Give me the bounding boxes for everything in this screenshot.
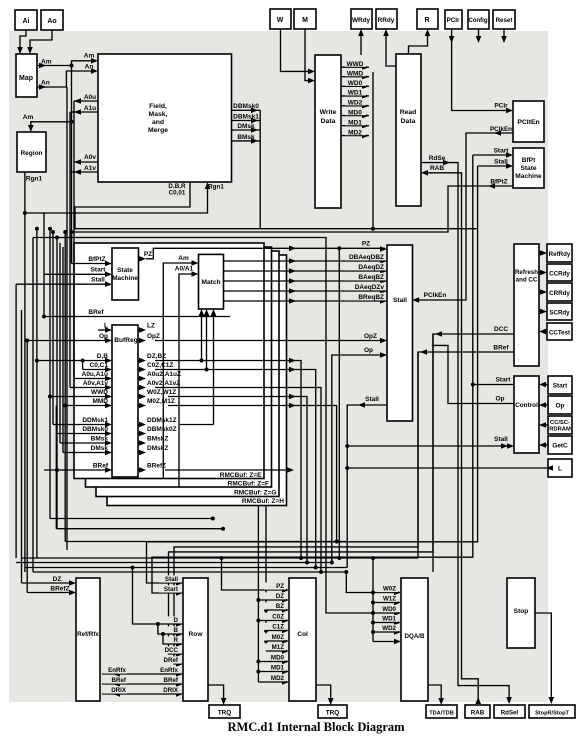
svg-text:RMCBuf: Z=G: RMCBuf: Z=G (234, 490, 276, 497)
bus A1u down (69, 112, 71, 388)
block Write-Data (315, 55, 341, 208)
wire md cross (371, 227, 478, 231)
bus left 12 (71, 66, 73, 264)
wires EnRfx BRef DRIX (102, 666, 181, 696)
caption (227, 720, 405, 734)
svg-text:M0Z,M1Z: M0Z,M1Z (147, 398, 175, 405)
svg-text:DBMsk0: DBMsk0 (233, 103, 259, 110)
svg-text:WD2: WD2 (382, 625, 396, 632)
svg-text:W1Z: W1Z (383, 596, 396, 603)
wire BfPt Start (473, 148, 513, 158)
wire Row to TRQ (208, 685, 226, 705)
wire BRefZ right (165, 467, 294, 473)
block PCItEn (513, 101, 544, 142)
svg-text:DZ: DZ (276, 593, 284, 600)
bus left 2 (21, 310, 23, 583)
wire RefRdy (539, 250, 547, 256)
wire Ao to Map (27, 30, 52, 54)
wire CRRdy (539, 289, 547, 295)
wire FMM DBMsk0 out (232, 103, 261, 113)
bus left 10 (62, 247, 64, 453)
port SCRdy (547, 303, 572, 320)
svg-text:DAeqDZ: DAeqDZ (358, 264, 384, 271)
svg-text:W0Z,W1Z: W0Z,W1Z (147, 389, 176, 396)
svg-text:BRefZ: BRefZ (50, 586, 69, 593)
svg-text:A1v: A1v (84, 165, 96, 172)
port CCRdy (547, 264, 572, 281)
svg-text:PZ: PZ (276, 583, 284, 590)
wire W0Z right (168, 394, 309, 565)
wire Stall out (347, 396, 387, 568)
svg-text:MD2: MD2 (348, 129, 362, 136)
svg-text:OpZ: OpZ (364, 333, 377, 340)
wire Stop out (535, 613, 554, 704)
svg-text:MD0: MD0 (271, 655, 285, 662)
svg-text:Config: Config (469, 18, 488, 24)
wire M to WriteData (305, 29, 315, 83)
block State-Machine (112, 248, 139, 300)
svg-text:Stall: Stall (365, 396, 379, 403)
block BfPt-State-Machine (513, 148, 544, 188)
svg-text:SCRdy: SCRdy (549, 310, 570, 317)
svg-text:CRRdy: CRRdy (549, 290, 570, 297)
svg-text:C1Z: C1Z (272, 624, 284, 631)
svg-text:PCIkEn: PCIkEn (490, 126, 512, 133)
svg-text:Map: Map (19, 75, 33, 82)
svg-text:A0v,A1v: A0v,A1v (83, 380, 109, 387)
svg-text:BRef: BRef (88, 309, 104, 316)
svg-text:DZ,BZ: DZ,BZ (147, 353, 166, 360)
right bundle dcc (169, 334, 434, 654)
wire PCIr down (449, 29, 513, 113)
wire CCRdy (539, 270, 547, 276)
wire CCSC (539, 422, 548, 428)
wire M0Z right (168, 403, 339, 544)
wire BfPtZ (70, 179, 514, 264)
bus left 1 (15, 284, 17, 558)
svg-text:RMC.d1 Internal Block Diagram: RMC.d1 Internal Block Diagram (227, 720, 405, 734)
right bundle start (152, 155, 473, 593)
port R (417, 9, 438, 29)
wire Match bottom in1 (199, 309, 205, 363)
svg-text:MD2: MD2 (271, 675, 285, 682)
block Refresh-and-CC (514, 244, 539, 366)
bundle row 2 (16, 562, 332, 564)
port Config (468, 10, 489, 29)
wire FMM DMsk out (232, 123, 261, 133)
svg-text:D: D (174, 617, 179, 624)
wire col md2 (258, 681, 287, 683)
svg-text:Ref/Rfx: Ref/Rfx (77, 631, 99, 638)
svg-text:An: An (85, 64, 94, 71)
svg-text:Merge: Merge (148, 127, 168, 134)
wire Control Stall in (345, 436, 514, 449)
svg-text:DZ: DZ (53, 576, 62, 583)
bundle row 3 (25, 567, 347, 569)
svg-text:CCRdy: CCRdy (549, 271, 570, 278)
svg-text:M0Z: M0Z (272, 634, 285, 641)
svg-text:Stall: Stall (494, 159, 508, 166)
block Control (514, 376, 539, 453)
label An FMM (85, 64, 94, 71)
port Op2 (548, 396, 572, 414)
wire FMM A0u out (74, 94, 98, 104)
bundle row 1 (22, 556, 419, 560)
svg-text:MD1: MD1 (271, 665, 285, 672)
port RdSel (494, 705, 525, 718)
svg-text:BufReg: BufReg (114, 337, 137, 344)
svg-text:Op: Op (495, 396, 504, 403)
svg-text:DRIX: DRIX (163, 687, 179, 694)
wire BfPt Stall (478, 159, 513, 169)
wire BRef row (42, 309, 230, 319)
wire C0Z right (155, 367, 318, 570)
block BufReg (112, 325, 138, 477)
svg-text:Control: Control (515, 402, 538, 409)
port RAB2 (465, 705, 490, 718)
wire Rgn1 down (25, 172, 210, 213)
wire Match A0A1 in (175, 266, 199, 488)
bundle row 5 (56, 406, 225, 531)
wire Row B (158, 624, 181, 634)
wire ReadData to R (409, 29, 431, 54)
svg-text:BfPt: BfPt (522, 157, 536, 164)
wire col c1z (266, 630, 287, 632)
port StopR-StopT (529, 705, 575, 718)
svg-text:WD2: WD2 (348, 100, 363, 107)
svg-text:GetC: GetC (552, 443, 568, 450)
wire pz col (338, 248, 340, 558)
svg-text:EnRfx: EnRfx (160, 667, 178, 674)
block Stop (507, 578, 535, 648)
wire Match bottom in3 (211, 309, 217, 425)
svg-text:TDA/TDB: TDA/TDB (429, 711, 454, 717)
wire FMM A1v out (70, 165, 98, 175)
svg-text:Machine: Machine (515, 173, 542, 180)
wires Match outputs (224, 253, 388, 304)
wire CCTest (539, 329, 547, 335)
rmcbuf Z=E (74, 243, 264, 479)
svg-text:EnRfx: EnRfx (108, 667, 126, 674)
svg-text:Rgn1: Rgn1 (208, 184, 224, 191)
svg-text:An: An (41, 80, 50, 87)
bundle row 7 (65, 541, 346, 543)
svg-text:BRef: BRef (164, 677, 179, 684)
wire DZ in (22, 576, 77, 586)
svg-text:W: W (277, 17, 284, 24)
svg-text:BRef: BRef (112, 677, 127, 684)
svg-text:RMCBuf: Z=H: RMCBuf: Z=H (242, 498, 284, 505)
svg-text:Reset: Reset (496, 17, 513, 24)
wire ReadData to RRdy (383, 29, 396, 66)
wire col bz (266, 609, 287, 611)
svg-text:DMskZ: DMskZ (147, 445, 168, 452)
svg-text:BAeqBZ: BAeqBZ (358, 274, 384, 281)
svg-text:MD0: MD0 (348, 109, 362, 116)
svg-text:RdSel: RdSel (501, 710, 519, 717)
block DQAB (401, 578, 428, 701)
svg-text:W0Z: W0Z (383, 586, 396, 593)
svg-text:BRef: BRef (493, 345, 509, 352)
svg-text:Field,: Field, (149, 103, 167, 110)
wire DDMsk1Z vert (180, 424, 214, 426)
wire GetC (539, 442, 548, 448)
svg-text:RAB: RAB (471, 710, 485, 717)
wire Control Op out (432, 345, 514, 403)
svg-text:RRdy: RRdy (378, 17, 395, 24)
wire cross stack top (33, 238, 375, 616)
svg-text:R: R (424, 17, 429, 24)
wire dq wd1 (371, 621, 399, 625)
rmcbuf Z=F (86, 247, 272, 488)
wire col md1 (258, 671, 287, 673)
port TRQ (209, 705, 240, 718)
wire L net (345, 465, 553, 471)
svg-text:State: State (520, 165, 536, 172)
svg-text:Data: Data (321, 118, 336, 125)
svg-text:PZ: PZ (144, 251, 152, 258)
svg-text:PZ: PZ (362, 241, 370, 248)
svg-text:WD0: WD0 (382, 606, 396, 613)
svg-text:Refresh: Refresh (515, 269, 538, 276)
svg-text:DQA/B: DQA/B (405, 633, 425, 640)
wire PZ net (139, 241, 388, 262)
svg-text:PCIr: PCIr (494, 103, 508, 110)
wire col dz (258, 599, 287, 601)
port TRQ2 (318, 705, 347, 718)
wire Start2 (539, 382, 548, 388)
right bundle bref (174, 352, 418, 664)
svg-text:DAeqDZv: DAeqDZv (355, 284, 385, 291)
svg-text:OpZ: OpZ (147, 333, 160, 340)
labels BufReg outputs (138, 323, 181, 473)
block Region (17, 132, 46, 172)
block Row (183, 578, 208, 701)
svg-text:A0v: A0v (84, 154, 96, 161)
svg-text:C0,01: C0,01 (169, 190, 186, 197)
labels Col inputs (264, 582, 289, 684)
bundle row 4 (33, 570, 348, 574)
svg-text:Stall: Stall (165, 576, 178, 583)
wire DZBZ right (155, 358, 303, 560)
block Map (16, 54, 37, 97)
wire FMM BMsk out (232, 134, 261, 144)
svg-text:R: R (174, 637, 179, 644)
svg-text:Start: Start (91, 267, 107, 274)
wire Op to Stall (330, 347, 387, 565)
port RRdy (376, 9, 397, 29)
svg-text:StopR/StopT: StopR/StopT (535, 711, 569, 717)
wire BRef refresh (418, 345, 514, 559)
svg-text:DBMsk0: DBMsk0 (82, 426, 108, 433)
port CCTest (547, 323, 572, 340)
port Ao (41, 10, 63, 30)
wire FMM A0v out (74, 154, 98, 165)
svg-text:MD1: MD1 (348, 120, 362, 127)
port L2 (548, 459, 572, 477)
svg-text:Op: Op (364, 347, 373, 354)
svg-text:PCIkEn: PCIkEn (424, 292, 447, 299)
wire RAB (421, 165, 481, 704)
wire BRefZ in (27, 586, 76, 596)
bus msk down (259, 110, 261, 228)
svg-text:L: L (558, 466, 562, 473)
wire SM BfPtZ in (72, 256, 113, 266)
block Field-Mask-Merge (98, 54, 232, 182)
svg-text:and CC: and CC (516, 277, 538, 284)
port Reset (493, 10, 515, 29)
wire Row R (161, 632, 181, 644)
labels BufReg inputs (82, 323, 112, 473)
rmcbuf Z=H (107, 255, 287, 506)
block Ref-Rfx (76, 578, 100, 701)
svg-text:A0u: A0u (84, 94, 96, 101)
wire Col to TRQ2 (316, 685, 334, 705)
bundle row 6 (50, 397, 215, 521)
block Stall (387, 245, 413, 421)
bus left 9 (59, 243, 61, 443)
port M (294, 9, 316, 29)
bus left 8 (55, 236, 59, 529)
svg-text:WD1: WD1 (382, 616, 396, 623)
wire A0v2 right (155, 388, 323, 575)
svg-text:Stall: Stall (91, 277, 105, 284)
svg-text:Op: Op (556, 403, 565, 410)
svg-text:BZ: BZ (276, 603, 284, 610)
wire WriteData to WRdy (358, 29, 364, 55)
labels DQAB inputs (376, 585, 401, 644)
port W (270, 9, 291, 29)
wire SCRdy (539, 309, 547, 315)
svg-text:DRIX: DRIX (111, 687, 127, 694)
svg-text:TRQ: TRQ (326, 710, 340, 717)
wire Reset stub (501, 29, 507, 43)
svg-text:BfPtZ: BfPtZ (88, 256, 105, 263)
wire w0z feed (346, 572, 399, 595)
port PCIr (445, 10, 462, 29)
bus Rgn1 down (23, 211, 27, 572)
wire dq wd2 (371, 630, 399, 634)
wire Op2 (539, 402, 548, 408)
svg-text:A0v2,A1vZ: A0v2,A1vZ (147, 380, 180, 387)
block Match (199, 254, 224, 309)
svg-text:Machine: Machine (112, 275, 138, 282)
svg-text:PCItEn: PCItEn (517, 119, 539, 126)
label Rgn1 FMM (208, 184, 224, 191)
svg-text:CCTest: CCTest (549, 330, 570, 337)
svg-text:C0Z: C0Z (272, 614, 284, 621)
wire PCIkEn (412, 103, 513, 303)
bus left 11 (63, 230, 67, 542)
svg-text:DDMsk1: DDMsk1 (82, 417, 108, 424)
wire Am to Region (23, 114, 74, 132)
svg-text:DCC: DCC (494, 326, 508, 333)
svg-text:WMD: WMD (347, 71, 364, 78)
bus WriteData down (372, 72, 374, 229)
wire pz col2 (222, 558, 290, 593)
wire Ai to Map (17, 30, 26, 54)
wire col m1z (266, 650, 287, 652)
svg-text:Region: Region (20, 150, 42, 157)
wire Row D (131, 566, 182, 627)
svg-text:BReqBZ: BReqBZ (358, 294, 384, 301)
port Start2 (548, 376, 572, 394)
wire col c0z (258, 620, 287, 622)
svg-text:Stop: Stop (514, 608, 529, 615)
wire Match bottom in2 (204, 309, 210, 372)
svg-text:Rgn1: Rgn1 (26, 176, 43, 183)
svg-text:BMskZ: BMskZ (147, 436, 168, 443)
svg-text:TRQ: TRQ (218, 710, 232, 717)
wire RdSe (421, 155, 512, 704)
svg-text:Write: Write (320, 109, 337, 116)
svg-text:WRdy: WRdy (352, 17, 371, 24)
bus A0u down (73, 101, 75, 379)
svg-text:RefRdy: RefRdy (549, 251, 571, 258)
wire Am to FMM (72, 53, 99, 66)
svg-text:Match: Match (201, 279, 220, 286)
svg-text:C0Z,C1Z: C0Z,C1Z (147, 362, 173, 369)
wire dq w1z (371, 601, 399, 605)
svg-text:DDMsk1Z: DDMsk1Z (147, 417, 177, 424)
wire FMM DBR down (35, 182, 373, 558)
wire FMM A1u out (70, 105, 98, 115)
svg-text:A0/A1: A0/A1 (175, 266, 194, 273)
wire col md0 (258, 661, 287, 663)
port WRdy (351, 9, 372, 29)
port TDA-TDB (426, 705, 457, 718)
wire SM Stall in (16, 277, 112, 288)
rmcbuf Z=G (96, 251, 279, 497)
svg-text:M1Z: M1Z (272, 644, 285, 651)
svg-text:Ao: Ao (47, 18, 56, 25)
wire col m0z (266, 640, 287, 642)
svg-text:CC/SC-: CC/SC- (550, 420, 570, 426)
wire dq last (373, 641, 399, 643)
svg-text:WD1: WD1 (348, 90, 363, 97)
wire SM Start in (44, 267, 112, 278)
svg-text:DRef: DRef (164, 657, 179, 664)
port Ai (15, 10, 37, 30)
svg-text:RMCBuf: Z=E: RMCBuf: Z=E (220, 472, 262, 479)
svg-text:A0u2,A1uZ: A0u2,A1uZ (147, 371, 181, 378)
wire Control Start out (471, 377, 514, 387)
svg-text:RMCBuf: Z=F: RMCBuf: Z=F (228, 481, 269, 488)
bus left 5 (43, 213, 45, 317)
svg-text:WD0: WD0 (348, 80, 363, 87)
svg-text:A1u: A1u (84, 105, 96, 112)
bus WD lower (371, 556, 375, 642)
port CRRdy (547, 283, 572, 301)
svg-text:Row: Row (189, 631, 204, 638)
wire Config stub (476, 29, 482, 43)
bus left 13 (66, 87, 68, 550)
bus left 7 (51, 230, 55, 425)
wire dq wd0 (373, 612, 399, 614)
svg-text:RDRAM: RDRAM (549, 427, 571, 433)
svg-text:LZ: LZ (147, 323, 155, 330)
svg-text:Mask,: Mask, (149, 111, 168, 118)
svg-text:DCC: DCC (165, 647, 179, 654)
svg-text:Data: Data (401, 118, 416, 125)
wire OpZ to Stall (155, 332, 387, 343)
port CCSC-RDRAM (548, 416, 572, 434)
svg-text:Ai: Ai (23, 18, 30, 25)
svg-text:DBAeqDBZ: DBAeqDBZ (349, 254, 384, 261)
right bundle stall (147, 166, 478, 583)
wire FMM DBMsk1 out (232, 114, 261, 124)
port GetC (548, 436, 572, 454)
